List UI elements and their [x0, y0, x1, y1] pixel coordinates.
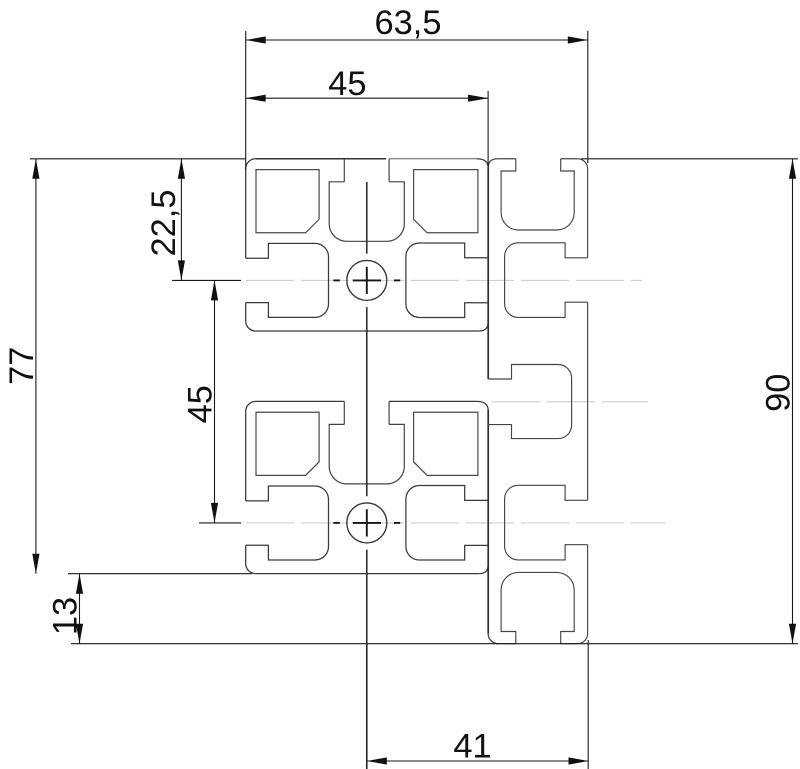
svg-text:41: 41 — [453, 728, 491, 766]
svg-text:90: 90 — [760, 374, 798, 412]
svg-text:22,5: 22,5 — [145, 190, 183, 257]
svg-text:45: 45 — [328, 65, 366, 103]
svg-text:63,5: 63,5 — [375, 4, 442, 42]
svg-text:77: 77 — [3, 347, 41, 385]
svg-text:45: 45 — [182, 385, 220, 423]
svg-text:13: 13 — [46, 597, 84, 635]
